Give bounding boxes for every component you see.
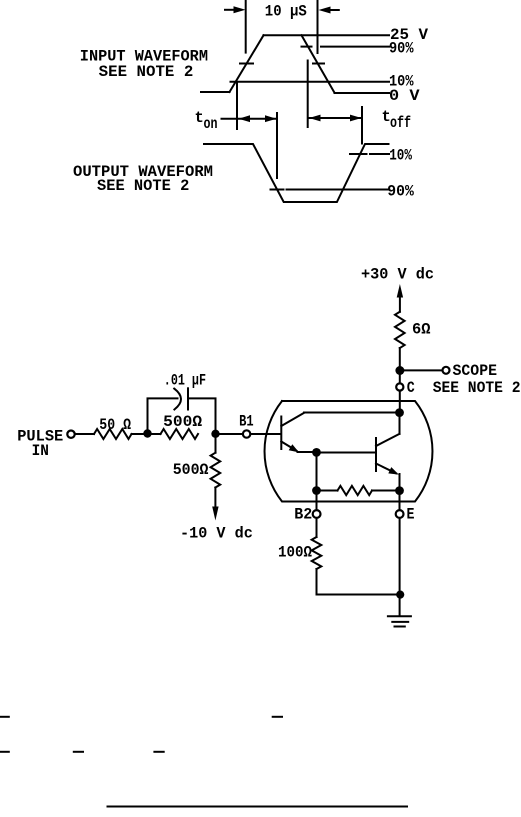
node pulse input terminal [67, 431, 74, 438]
svg-text:t: t [195, 109, 204, 127]
svg-text:off: off [390, 114, 411, 132]
label 90% output [387, 182, 414, 200]
node C terminal [396, 383, 403, 390]
label t off [382, 108, 412, 132]
wire 10% leader output [350, 153, 389, 155]
svg-text:E: E [407, 506, 415, 524]
wire to scope terminal [404, 369, 442, 371]
node package resistor right [395, 486, 404, 495]
svg-text:10 μS: 10 μS [265, 2, 307, 20]
page dash mark 4 [74, 751, 83, 753]
label 0 V [389, 87, 420, 105]
wire Q2 collector up [399, 417, 401, 434]
node Q1 emitter junction [312, 448, 321, 457]
wire input waveform baseline [201, 91, 230, 93]
resistor 500 ohm vertical [211, 453, 221, 488]
wire dimension extension line left [245, 0, 247, 53]
svg-text:50 Ω: 50 Ω [99, 416, 131, 434]
resistor 500 ohm top [161, 429, 199, 439]
tick 50% falling edge [313, 63, 324, 65]
wire -10V arrow down [212, 507, 218, 521]
wire t-off arrows [309, 115, 362, 122]
wire collector rail [304, 412, 395, 414]
ground [388, 616, 411, 626]
page dash mark 1 [0, 716, 9, 718]
svg-text:on: on [204, 115, 218, 133]
svg-text:90%: 90% [387, 182, 414, 200]
label 10% input [389, 73, 414, 91]
SECTION: schematic [17, 266, 520, 627]
tick 50% rising edge [240, 63, 253, 65]
wire 90% leader output [271, 189, 390, 191]
svg-text:IN: IN [32, 442, 49, 460]
svg-text:+30 V dc: +30 V dc [361, 266, 434, 284]
wire E to ground [399, 518, 401, 615]
label -10 V dc [180, 525, 253, 543]
label C [407, 379, 415, 397]
resistor 100 ohm [312, 537, 322, 569]
wire +30V arrow up [397, 284, 403, 312]
svg-text:6Ω: 6Ω [412, 320, 431, 338]
label 6 ohm [412, 320, 431, 338]
wire capacitor right riser [188, 398, 216, 429]
label 10 microseconds [265, 2, 307, 20]
node B2 terminal [313, 510, 321, 518]
wire node5 to B2 [316, 495, 318, 510]
wire t-off dimension line [308, 117, 362, 119]
label 500 ohm vertical [173, 461, 209, 479]
wire node2 to B1 [220, 433, 243, 435]
svg-text:100Ω: 100Ω [278, 544, 312, 562]
label E [407, 506, 415, 524]
wire dimension arrow left [225, 6, 246, 13]
node B1 junction [211, 430, 219, 438]
wire node2 down [215, 438, 217, 453]
wire resistor right lead [372, 490, 395, 492]
wire base lead Q2 [321, 452, 375, 454]
label B1 [239, 413, 254, 431]
label 50 ohm [99, 416, 131, 434]
resistor 6 ohm [395, 312, 405, 348]
label 10% output [389, 147, 412, 165]
wire input waveform rising edge [230, 35, 264, 92]
node capacitor left junction [143, 429, 151, 437]
svg-text:0 V: 0 V [389, 87, 420, 105]
wire t-on boundary right [276, 113, 278, 178]
wire output waveform [204, 144, 389, 202]
SECTION: timing diagram [73, 0, 429, 202]
svg-text:SCOPE: SCOPE [453, 362, 498, 380]
node collector junction [395, 408, 404, 417]
resistor package internal [338, 486, 372, 495]
wire Q1 emitter to node [298, 451, 313, 453]
page dash mark 3 [0, 751, 9, 753]
label SCOPE SEE NOTE 2 [433, 362, 521, 397]
node E terminal [396, 510, 404, 518]
resistor 50 ohm [94, 429, 132, 439]
label B2 [294, 506, 312, 524]
svg-text:90%: 90% [389, 40, 414, 58]
wire t-on dimension line [222, 118, 278, 120]
SECTION: page bottom marks [0, 717, 407, 807]
node ground junction [396, 591, 404, 599]
page dash mark 2 [273, 716, 282, 718]
wire Q2 emitter down [399, 474, 401, 486]
label INPUT WAVEFORM [80, 48, 208, 81]
transistor package outline [265, 401, 433, 502]
wire capacitor left riser [148, 398, 178, 429]
svg-text:10%: 10% [389, 147, 412, 165]
wire t-off boundary left [307, 61, 309, 128]
node scope junction [395, 366, 404, 375]
wire 90% leader input [302, 46, 390, 48]
wire input to 50 ohm [75, 433, 94, 435]
label 100 ohm [278, 544, 312, 562]
wire node1 to 500 ohm [152, 433, 161, 435]
capacitor .01 uF [174, 388, 188, 409]
svg-text:SEE NOTE 2: SEE NOTE 2 [433, 379, 521, 397]
wire 6 ohm to node [399, 348, 401, 366]
wire t-on arrows [239, 115, 277, 122]
svg-text:SEE NOTE 2: SEE NOTE 2 [99, 63, 194, 81]
svg-text:-10 V dc: -10 V dc [180, 525, 253, 543]
label +30 V dc [361, 266, 434, 284]
node package resistor left [312, 486, 321, 495]
wire resistor left lead [321, 490, 338, 492]
node B1 terminal [243, 430, 250, 437]
wire C into package [399, 391, 401, 409]
svg-text:B1: B1 [239, 413, 254, 431]
wire 0V leader [335, 92, 390, 94]
label 90% input [389, 40, 414, 58]
wire t-off boundary right [361, 107, 363, 144]
wire 500 ohm to arrow [214, 488, 216, 508]
svg-text:SEE NOTE 2: SEE NOTE 2 [97, 177, 189, 195]
page dash mark 5 [154, 751, 163, 753]
label 25 V [390, 26, 429, 44]
node scope terminal [443, 367, 450, 374]
svg-text:.01 μF: .01 μF [164, 371, 206, 389]
wire 50 ohm to node1 [132, 433, 144, 435]
wire t-on boundary left [236, 83, 238, 129]
svg-text:500Ω: 500Ω [173, 461, 209, 479]
label PULSE IN [17, 428, 63, 461]
transistor Q1 [281, 413, 304, 453]
wire B1 to Q1 base [251, 433, 280, 435]
wire input waveform falling edge [302, 35, 335, 92]
svg-text:B2: B2 [294, 506, 312, 524]
svg-text:500Ω: 500Ω [163, 413, 202, 431]
page rule line [108, 806, 408, 808]
wire 10% leader input [231, 81, 390, 83]
wire node6 to E [399, 495, 401, 510]
transistor Q2 [376, 434, 400, 475]
wire dimension arrow right [319, 7, 339, 14]
wire node to C terminal [399, 375, 401, 383]
label t on [195, 109, 218, 133]
wire dimension extension line right [317, 0, 319, 53]
wire B2 to 100 ohm [316, 518, 318, 537]
label OUTPUT WAVEFORM [73, 163, 213, 195]
svg-text:C: C [407, 379, 415, 397]
label .01 uF [164, 371, 206, 389]
wire input waveform top and 25V leader [264, 34, 390, 36]
wire node3 to node5 [316, 457, 318, 487]
wire 100 ohm to corner [317, 569, 396, 595]
label 500 ohm top [163, 413, 202, 431]
